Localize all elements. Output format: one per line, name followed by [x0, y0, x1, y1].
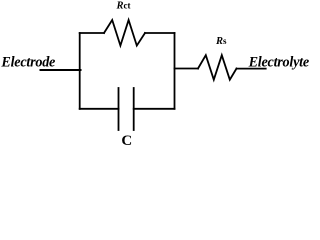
- wire left rail of parallel network: [79, 33, 81, 109]
- svg-text:Electrolyte: Electrolyte: [248, 54, 309, 70]
- svg-text:C: C: [121, 133, 132, 148]
- wire from Rs to Electrolyte: [237, 68, 266, 70]
- wire top branch right segment: [145, 32, 175, 34]
- svg-text:Rct: Rct: [116, 1, 131, 12]
- wire right rail of parallel network: [174, 33, 176, 109]
- resistor R_ct: [104, 20, 145, 46]
- wire top branch left segment: [80, 32, 104, 34]
- capacitor C left plate: [118, 88, 120, 130]
- svg-text:Rs: Rs: [215, 36, 227, 47]
- wire from network node to Rs: [175, 68, 199, 70]
- wire Electrode lead: [41, 69, 81, 71]
- resistor Rs: [198, 55, 237, 79]
- wire bottom branch right segment: [134, 108, 175, 110]
- svg-text:Electrode: Electrode: [0, 54, 55, 70]
- wire bottom branch left segment: [80, 108, 119, 110]
- capacitor C right plate: [133, 88, 135, 130]
